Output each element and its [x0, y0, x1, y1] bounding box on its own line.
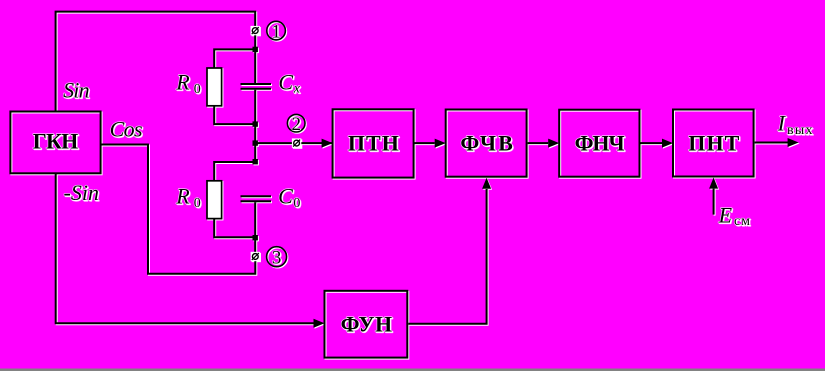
capacitor C0 plates — [241, 195, 272, 197]
wire E sm arrow into PNT bottom — [713, 189, 715, 215]
arrowhead into PNT — [662, 139, 673, 148]
circled 1 — [267, 21, 286, 42]
wire main vertical: terminal 1 to top cap — [254, 35, 256, 83]
svg-text:2: 2 — [291, 114, 301, 135]
svg-text:-Sin: -Sin — [64, 180, 100, 205]
block FNCH (ФНЧ) — [559, 110, 639, 177]
svg-text:Sin: Sin — [63, 78, 90, 103]
svg-text:вых: вых — [787, 123, 813, 138]
svg-text:0: 0 — [194, 82, 201, 97]
node junction dot top-R upper — [253, 47, 258, 52]
svg-text:E: E — [718, 203, 733, 228]
node junction dot bottom-R lower — [253, 235, 258, 240]
arrowhead into FNCH — [548, 139, 559, 148]
wire main vertical: bottom cap to terminal 3 — [254, 202, 256, 252]
wire terminal 3 to Cos elbow — [101, 145, 255, 274]
wire FNCH to PNT — [640, 142, 663, 144]
wire branch bottom resistor lower — [214, 219, 255, 238]
block PTN (ПТН) — [333, 109, 414, 177]
svg-text:R: R — [175, 183, 190, 208]
svg-text:ФНЧ: ФНЧ — [575, 131, 625, 156]
node junction dot mid tap — [253, 140, 258, 145]
terminal 2 — [292, 138, 301, 147]
svg-text:C: C — [278, 69, 293, 94]
arrowhead into PTN — [322, 139, 333, 148]
wire branch top resistor upper — [214, 49, 255, 68]
svg-text:x: x — [293, 82, 301, 97]
svg-text:ФУН: ФУН — [341, 312, 393, 337]
svg-text:ГКН: ГКН — [33, 129, 79, 154]
svg-text:ПТН: ПТН — [348, 130, 399, 155]
wire main vertical: top cap to mid — [254, 90, 256, 162]
wire -Sin: GKN bottom to FUN — [56, 174, 314, 323]
arrowhead E sm — [709, 178, 718, 189]
capacitor Cx plates — [241, 83, 272, 85]
wire mid tap to PTN — [255, 142, 322, 144]
node junction dot bottom-R upper — [253, 159, 258, 164]
wire branch top resistor lower — [214, 106, 255, 124]
resistor R0 bottom — [207, 181, 222, 219]
block PNT (ПНТ) — [673, 110, 754, 177]
terminal 3 — [251, 252, 260, 261]
wire Sin: GKN top to terminal 1 — [56, 12, 256, 112]
block FUN (ФУН) — [325, 291, 408, 358]
gray bottom strip — [0, 369, 825, 371]
wire PTN to FCHV — [414, 142, 435, 144]
svg-text:R: R — [175, 70, 190, 95]
svg-text:C: C — [278, 183, 293, 208]
circled 2 — [287, 114, 305, 135]
svg-text:3: 3 — [272, 248, 282, 269]
svg-text:0: 0 — [293, 196, 300, 211]
svg-text:ПНТ: ПНТ — [688, 130, 739, 155]
svg-text:1: 1 — [271, 21, 281, 42]
arrowhead output — [788, 138, 799, 147]
terminal 1 — [251, 26, 260, 35]
svg-text:см: см — [734, 214, 750, 229]
wire FUN output to FCHV bottom — [408, 189, 486, 324]
wire branch bottom resistor upper — [214, 162, 255, 181]
svg-text:0: 0 — [194, 196, 201, 211]
svg-text:ФЧВ: ФЧВ — [460, 130, 513, 155]
node junction dot top-R lower — [253, 121, 258, 126]
resistor R0 top — [207, 68, 222, 106]
wire PNT output Ivyh — [755, 142, 788, 144]
arrowhead into FCHV bottom — [482, 178, 491, 189]
svg-text:Cos: Cos — [110, 117, 143, 142]
wire FCHV to FNCH — [528, 142, 549, 144]
circled 3 — [267, 247, 287, 269]
arrowhead into FUN — [314, 319, 325, 328]
block FCHV (ФЧВ) — [446, 110, 527, 177]
block GKN (ГКН) — [10, 112, 100, 174]
arrowhead into FCHV — [435, 139, 446, 148]
